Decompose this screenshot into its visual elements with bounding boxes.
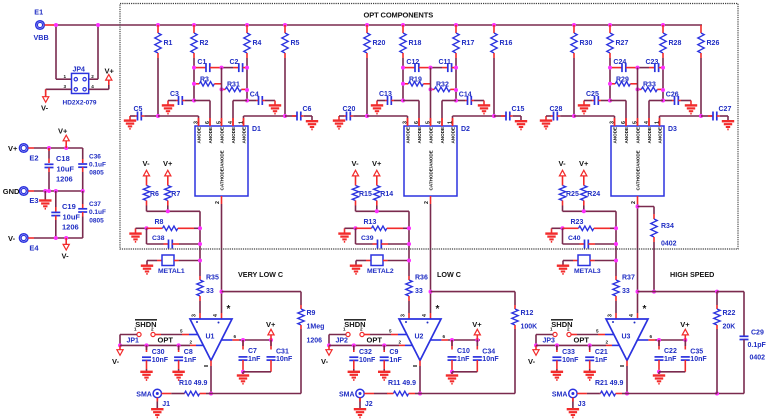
svg-text:4: 4 [228, 121, 234, 124]
svg-text:6: 6 [205, 121, 211, 124]
svg-text:ANODE: ANODE [647, 127, 652, 144]
svg-text:GND: GND [3, 187, 20, 196]
svg-text:HD2X2-079: HD2X2-079 [63, 100, 97, 107]
svg-text:CATHODE/ANODE: CATHODE/ANODE [220, 150, 225, 190]
svg-text:R36: R36 [415, 275, 428, 282]
svg-text:R9: R9 [307, 310, 316, 317]
svg-text:C5: C5 [134, 106, 143, 113]
svg-text:0402: 0402 [750, 355, 766, 362]
svg-text:V-: V- [62, 252, 70, 261]
svg-text:6: 6 [650, 334, 653, 339]
svg-text:1Meg: 1Meg [307, 324, 325, 331]
svg-text:R23: R23 [571, 219, 584, 226]
svg-text:V+: V+ [8, 144, 18, 153]
svg-text:R26: R26 [707, 40, 720, 47]
svg-text:ANODE: ANODE [417, 127, 422, 144]
svg-text:4: 4 [91, 84, 94, 89]
svg-text:1206: 1206 [56, 175, 73, 184]
svg-text:1nF: 1nF [457, 356, 470, 363]
svg-text:C27: C27 [719, 106, 732, 113]
svg-text:C6: C6 [303, 106, 312, 113]
svg-text:V+: V+ [105, 67, 115, 76]
svg-text:C36: C36 [89, 154, 101, 161]
svg-text:VBB: VBB [34, 33, 49, 42]
svg-text:10uF: 10uF [63, 213, 81, 222]
svg-text:VERY LOW C: VERY LOW C [238, 270, 283, 279]
svg-text:4: 4 [644, 121, 650, 124]
svg-text:V-: V- [559, 159, 567, 168]
svg-text:2: 2 [606, 339, 609, 344]
svg-text:HIGH SPEED: HIGH SPEED [670, 270, 714, 279]
svg-text:J3: J3 [578, 401, 586, 408]
svg-text:ANODE: ANODE [624, 127, 629, 144]
svg-text:R7: R7 [171, 191, 180, 198]
svg-text:1206: 1206 [62, 223, 79, 232]
svg-text:R31: R31 [227, 81, 240, 88]
svg-text:C25: C25 [586, 91, 599, 98]
svg-text:R4: R4 [253, 40, 262, 47]
svg-text:SMA: SMA [552, 391, 568, 398]
svg-text:JP2: JP2 [336, 338, 349, 345]
svg-text:R30: R30 [580, 40, 593, 47]
svg-text:R21 49.9: R21 49.9 [595, 380, 624, 387]
svg-text:SHDN: SHDN [344, 320, 365, 329]
svg-text:V+: V+ [372, 159, 382, 168]
svg-text:0.1uF: 0.1uF [89, 209, 106, 216]
svg-text:C29: C29 [751, 330, 764, 337]
svg-text:R8: R8 [155, 219, 164, 226]
svg-text:4: 4 [213, 314, 219, 317]
svg-text:R22: R22 [723, 310, 736, 317]
svg-text:1nF: 1nF [389, 357, 402, 364]
svg-text:ANODE: ANODE [220, 127, 225, 144]
svg-text:3: 3 [191, 314, 197, 317]
svg-text:V-: V- [321, 357, 329, 366]
svg-text:10uF: 10uF [57, 165, 75, 174]
svg-text:3: 3 [64, 84, 67, 89]
svg-text:2: 2 [631, 201, 637, 204]
svg-text:V+: V+ [266, 320, 276, 329]
svg-text:*: * [643, 304, 647, 315]
svg-text:U3: U3 [622, 334, 631, 341]
svg-text:JP1: JP1 [127, 338, 140, 345]
svg-text:C38: C38 [152, 235, 165, 242]
svg-text:J2: J2 [365, 401, 373, 408]
svg-text:3: 3 [193, 121, 199, 124]
svg-text:C12: C12 [406, 59, 419, 66]
svg-text:R10 49.9: R10 49.9 [179, 380, 208, 387]
svg-text:R14: R14 [380, 191, 393, 198]
svg-text:C3: C3 [170, 91, 179, 98]
svg-text:C33: C33 [562, 349, 575, 356]
svg-text:*: * [436, 304, 440, 315]
svg-text:C11: C11 [439, 59, 452, 66]
svg-text:E2: E2 [29, 154, 38, 163]
svg-text:METAL1: METAL1 [158, 268, 185, 275]
svg-text:D1: D1 [252, 126, 261, 133]
svg-text:R28: R28 [669, 40, 682, 47]
svg-text:C21: C21 [595, 349, 608, 356]
svg-text:LOW C: LOW C [437, 270, 461, 279]
svg-text:C20: C20 [343, 106, 356, 113]
svg-text:1: 1 [447, 121, 453, 124]
svg-text:R27: R27 [616, 40, 629, 47]
svg-text:3: 3 [607, 314, 613, 317]
svg-text:1nF: 1nF [184, 357, 197, 364]
svg-text:1: 1 [238, 121, 244, 124]
svg-text:R1: R1 [164, 40, 173, 47]
svg-text:U1: U1 [206, 334, 215, 341]
svg-text:R29: R29 [616, 77, 629, 84]
svg-text:E1: E1 [34, 8, 43, 17]
svg-text:SMA: SMA [136, 391, 152, 398]
svg-text:SHDN: SHDN [135, 320, 156, 329]
svg-text:ANODE: ANODE [658, 127, 663, 144]
svg-text:1nF: 1nF [248, 356, 261, 363]
svg-text:R37: R37 [622, 275, 635, 282]
svg-text:D3: D3 [668, 126, 677, 133]
svg-text:0.1uF: 0.1uF [89, 161, 106, 168]
svg-text:1: 1 [654, 121, 660, 124]
svg-text:10nF: 10nF [690, 356, 707, 363]
svg-text:ANODE: ANODE [231, 127, 236, 144]
svg-text:33: 33 [622, 288, 630, 295]
svg-text:C9: C9 [389, 349, 398, 356]
svg-text:3: 3 [402, 121, 408, 124]
svg-text:4: 4 [629, 314, 635, 317]
svg-text:10nF: 10nF [359, 357, 376, 364]
svg-text:6: 6 [443, 334, 446, 339]
svg-text:100K: 100K [521, 324, 538, 331]
svg-text:OPT: OPT [367, 336, 383, 345]
svg-text:10nF: 10nF [482, 356, 499, 363]
svg-text:E3: E3 [29, 196, 38, 205]
svg-text:2: 2 [215, 201, 221, 204]
svg-text:JP3: JP3 [543, 338, 556, 345]
svg-text:C40: C40 [568, 235, 581, 242]
svg-text:33: 33 [206, 288, 214, 295]
svg-text:C37: C37 [89, 201, 101, 208]
svg-text:C14: C14 [459, 91, 472, 98]
svg-text:C10: C10 [457, 348, 470, 355]
svg-text:V-: V- [41, 104, 49, 113]
svg-text:2: 2 [91, 74, 94, 79]
svg-text:CATHODE/ANODE: CATHODE/ANODE [636, 150, 641, 190]
svg-text:6: 6 [414, 121, 420, 124]
svg-text:C1: C1 [197, 59, 206, 66]
svg-text:R17: R17 [462, 40, 475, 47]
svg-text:ANODE: ANODE [406, 127, 411, 144]
svg-text:V-: V- [112, 357, 120, 366]
svg-text:5: 5 [425, 121, 431, 124]
svg-text:V+: V+ [472, 320, 482, 329]
svg-text:D2: D2 [461, 126, 470, 133]
svg-text:C13: C13 [379, 91, 392, 98]
svg-text:R16: R16 [500, 40, 513, 47]
svg-text:C15: C15 [512, 106, 525, 113]
svg-text:JP4: JP4 [73, 67, 86, 74]
svg-text:V-: V- [8, 234, 16, 243]
svg-text:V+: V+ [58, 127, 68, 136]
svg-text:OPT COMPONENTS: OPT COMPONENTS [364, 11, 434, 20]
svg-text:5: 5 [216, 121, 222, 124]
svg-text:C30: C30 [152, 349, 165, 356]
svg-text:V+: V+ [680, 320, 690, 329]
svg-text:R13: R13 [364, 219, 377, 226]
svg-text:C32: C32 [359, 349, 372, 356]
svg-text:5: 5 [389, 329, 392, 334]
svg-text:C22: C22 [664, 348, 677, 355]
svg-text:0.1pF: 0.1pF [748, 342, 767, 349]
svg-text:6: 6 [234, 334, 237, 339]
svg-text:E4: E4 [29, 244, 39, 253]
svg-text:OPT: OPT [574, 336, 590, 345]
svg-text:C31: C31 [276, 349, 289, 356]
svg-text:METAL3: METAL3 [574, 268, 601, 275]
svg-text:R2: R2 [200, 40, 209, 47]
svg-text:5: 5 [180, 329, 183, 334]
svg-text:1206: 1206 [307, 337, 323, 344]
svg-text:R33: R33 [643, 81, 656, 88]
svg-text:R35: R35 [206, 275, 219, 282]
svg-text:2: 2 [399, 339, 402, 344]
svg-text:3: 3 [400, 314, 406, 317]
svg-text:C23: C23 [646, 59, 659, 66]
svg-text:4: 4 [437, 121, 443, 124]
svg-text:R24: R24 [587, 191, 600, 198]
svg-text:SMA: SMA [339, 391, 355, 398]
svg-text:V-: V- [528, 357, 536, 366]
svg-text:ANODE: ANODE [429, 127, 434, 144]
svg-text:1: 1 [64, 74, 67, 79]
svg-text:C4: C4 [250, 91, 259, 98]
svg-text:V-: V- [352, 159, 360, 168]
svg-text:3: 3 [609, 121, 615, 124]
svg-text:ANODE: ANODE [451, 127, 456, 144]
svg-text:V-: V- [143, 159, 151, 168]
svg-text:ANODE: ANODE [613, 127, 618, 144]
svg-text:ANODE: ANODE [636, 127, 641, 144]
svg-text:R6: R6 [150, 191, 159, 198]
svg-text:ANODE: ANODE [440, 127, 445, 144]
svg-text:SHDN: SHDN [551, 320, 572, 329]
svg-text:R19: R19 [409, 77, 422, 84]
svg-text:C24: C24 [613, 59, 626, 66]
svg-text:R18: R18 [409, 40, 422, 47]
svg-text:METAL2: METAL2 [367, 268, 394, 275]
svg-text:10nF: 10nF [562, 357, 579, 364]
svg-text:*: * [227, 304, 231, 315]
svg-text:U2: U2 [415, 334, 424, 341]
svg-text:C28: C28 [550, 106, 563, 113]
svg-text:10nF: 10nF [276, 356, 293, 363]
svg-text:R25: R25 [566, 191, 579, 198]
svg-text:0805: 0805 [89, 217, 104, 224]
svg-text:C34: C34 [482, 349, 495, 356]
svg-text:2: 2 [424, 201, 430, 204]
svg-text:ANODE: ANODE [208, 127, 213, 144]
svg-text:0402: 0402 [661, 241, 677, 248]
svg-text:R20: R20 [373, 40, 386, 47]
svg-text:C7: C7 [248, 348, 257, 355]
svg-text:1nF: 1nF [664, 356, 677, 363]
svg-text:R5: R5 [291, 40, 300, 47]
svg-text:C18: C18 [56, 154, 70, 163]
svg-text:4: 4 [422, 314, 428, 317]
svg-text:0805: 0805 [89, 170, 104, 177]
svg-text:5: 5 [632, 121, 638, 124]
svg-text:R12: R12 [521, 310, 534, 317]
svg-text:5: 5 [596, 329, 599, 334]
svg-text:OPT: OPT [158, 336, 174, 345]
svg-text:ANODE: ANODE [197, 127, 202, 144]
svg-text:C2: C2 [230, 59, 239, 66]
svg-text:V+: V+ [163, 159, 173, 168]
svg-text:20K: 20K [723, 324, 736, 331]
svg-text:C19: C19 [62, 202, 76, 211]
svg-text:R15: R15 [359, 191, 372, 198]
svg-text:J1: J1 [162, 401, 170, 408]
svg-text:R11 49.9: R11 49.9 [388, 380, 416, 387]
svg-text:V+: V+ [579, 159, 589, 168]
svg-text:ANODE: ANODE [242, 127, 247, 144]
svg-text:10nF: 10nF [152, 357, 169, 364]
svg-text:1nF: 1nF [595, 357, 608, 364]
svg-text:6: 6 [621, 121, 627, 124]
svg-text:C26: C26 [666, 91, 679, 98]
svg-text:2: 2 [190, 339, 193, 344]
svg-text:R34: R34 [661, 223, 674, 230]
svg-text:R3: R3 [200, 77, 209, 84]
svg-text:CATHODE/ANODE: CATHODE/ANODE [429, 150, 434, 190]
svg-text:C35: C35 [690, 349, 703, 356]
svg-text:33: 33 [415, 288, 423, 295]
svg-text:C39: C39 [361, 235, 374, 242]
svg-text:C8: C8 [184, 349, 193, 356]
svg-text:R32: R32 [436, 81, 449, 88]
